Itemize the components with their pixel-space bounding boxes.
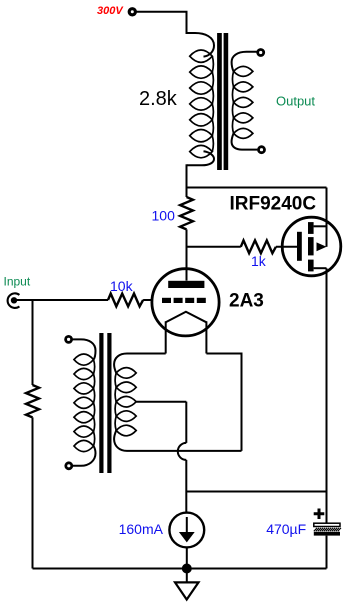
input jack ring [8, 293, 20, 308]
wire ground rail [33, 568, 327, 570]
wire hop to cathode rail [185, 460, 187, 492]
svg-text:1k: 1k [251, 253, 267, 269]
resistor R 100 [180, 197, 193, 229]
ground stub [186, 569, 188, 583]
transformer T2 secondary winding [116, 368, 136, 436]
tube V1 filament left leg [165, 321, 167, 353]
transformer T2 primary top lead [72, 339, 96, 359]
transformer T2 core [99, 333, 111, 473]
wire from 300V terminal to transformer T1 primary [137, 12, 187, 34]
svg-text:10k: 10k [110, 278, 134, 294]
transistor Q1 channel drain segment [308, 260, 314, 272]
tube V1 filament tent [166, 312, 207, 323]
terminal output + [258, 50, 264, 56]
terminal 300V [129, 9, 135, 15]
terminal filament supply bottom [66, 463, 72, 469]
transformer T2 primary winding [74, 354, 94, 452]
svg-text:Output: Output [276, 94, 315, 109]
wire input to 10k [14, 299, 108, 301]
transformer T1 primary helix edge [212, 56, 213, 151]
transformer T2 secondary helix edge [115, 373, 116, 431]
svg-text:Input: Input [4, 274, 31, 288]
transistor Q1 drain stub [314, 267, 327, 269]
svg-text:2A3: 2A3 [229, 291, 264, 312]
tube V1 plate [168, 281, 204, 288]
resistor R grid leak [26, 385, 39, 417]
current source I1 circle [169, 513, 204, 548]
transistor Q1 IRF9240C body circle [282, 217, 341, 276]
transistor Q1 body arrow [317, 242, 327, 251]
terminal filament supply top [66, 336, 72, 342]
wire mosfet drain down right side [326, 268, 328, 491]
wire resistor 100 to plate node [186, 229, 188, 280]
wire 10k to grid [143, 299, 152, 301]
transformer T2 primary helix edge [94, 360, 95, 446]
transformer T1 primary winding [190, 50, 213, 158]
transistor Q1 channel source segment [308, 222, 314, 234]
transformer T2 center tap [136, 401, 186, 403]
resistor R 1k [241, 240, 276, 253]
current source I1 arrow shaft [186, 517, 188, 534]
ground symbol [175, 582, 199, 599]
wire 1k to gate [276, 246, 297, 248]
current source I1 arrow head [179, 532, 195, 542]
capacitor C1 bottom lead [326, 536, 328, 569]
wire input branch down [32, 300, 34, 385]
svg-text:2.8k: 2.8k [139, 88, 178, 110]
tube V1 2A3 envelope [152, 269, 219, 336]
wire grid leak to ground rail [32, 417, 34, 568]
current source I1 bottom stub [186, 547, 188, 568]
wire T1 primary bottom to rail [186, 164, 188, 188]
wire rail down to mosfet source [326, 188, 328, 247]
transformer T2 primary bottom lead [72, 446, 95, 466]
svg-text:470µF: 470µF [266, 521, 306, 537]
wire hop over filament line [178, 443, 186, 460]
capacitor C1 top plate [314, 523, 340, 526]
svg-text:300V: 300V [97, 5, 124, 17]
transformer T1 core [217, 33, 228, 170]
svg-text:100: 100 [152, 208, 176, 224]
wire cathode rail down to capacitor [326, 492, 328, 524]
transistor Q1 gate bar [297, 232, 302, 261]
wire plate rail [187, 187, 327, 189]
capacitor C1 bottom plate [314, 532, 340, 536]
transformer T1 secondary helix edge [232, 71, 233, 133]
junction ground node [182, 564, 192, 574]
wire right filament leg return [206, 354, 241, 451]
transformer T1 primary top lead [187, 33, 215, 57]
capacitor C1 plus sign [314, 509, 325, 520]
wire center tap down [185, 402, 187, 443]
transformer T1 primary bottom lead [187, 151, 214, 165]
current source I1 top stub [185, 492, 187, 513]
svg-text:160mA: 160mA [119, 521, 164, 537]
transformer T1 secondary winding [234, 66, 253, 138]
wire gate branch [187, 246, 241, 248]
capacitor C1 hatched plate [314, 528, 341, 531]
transformer T2 secondary bottom lead [114, 431, 241, 451]
tube V1 grid dashes [162, 298, 206, 303]
transformer T2 secondary top lead [114, 354, 166, 373]
transistor Q1 source stub [314, 225, 327, 227]
wire rail to 100 ohm resistor [186, 188, 188, 198]
transformer T1 secondary top lead [232, 52, 258, 72]
resistor R 10k [108, 294, 143, 307]
transformer T1 secondary bottom lead [232, 133, 258, 149]
wire cathode rail [186, 491, 326, 493]
tube V1 filament right leg [205, 321, 207, 353]
input jack tip [11, 297, 17, 303]
transistor Q1 channel body segment [308, 237, 314, 255]
svg-text:IRF9240C: IRF9240C [230, 194, 317, 215]
terminal output - [259, 147, 265, 153]
